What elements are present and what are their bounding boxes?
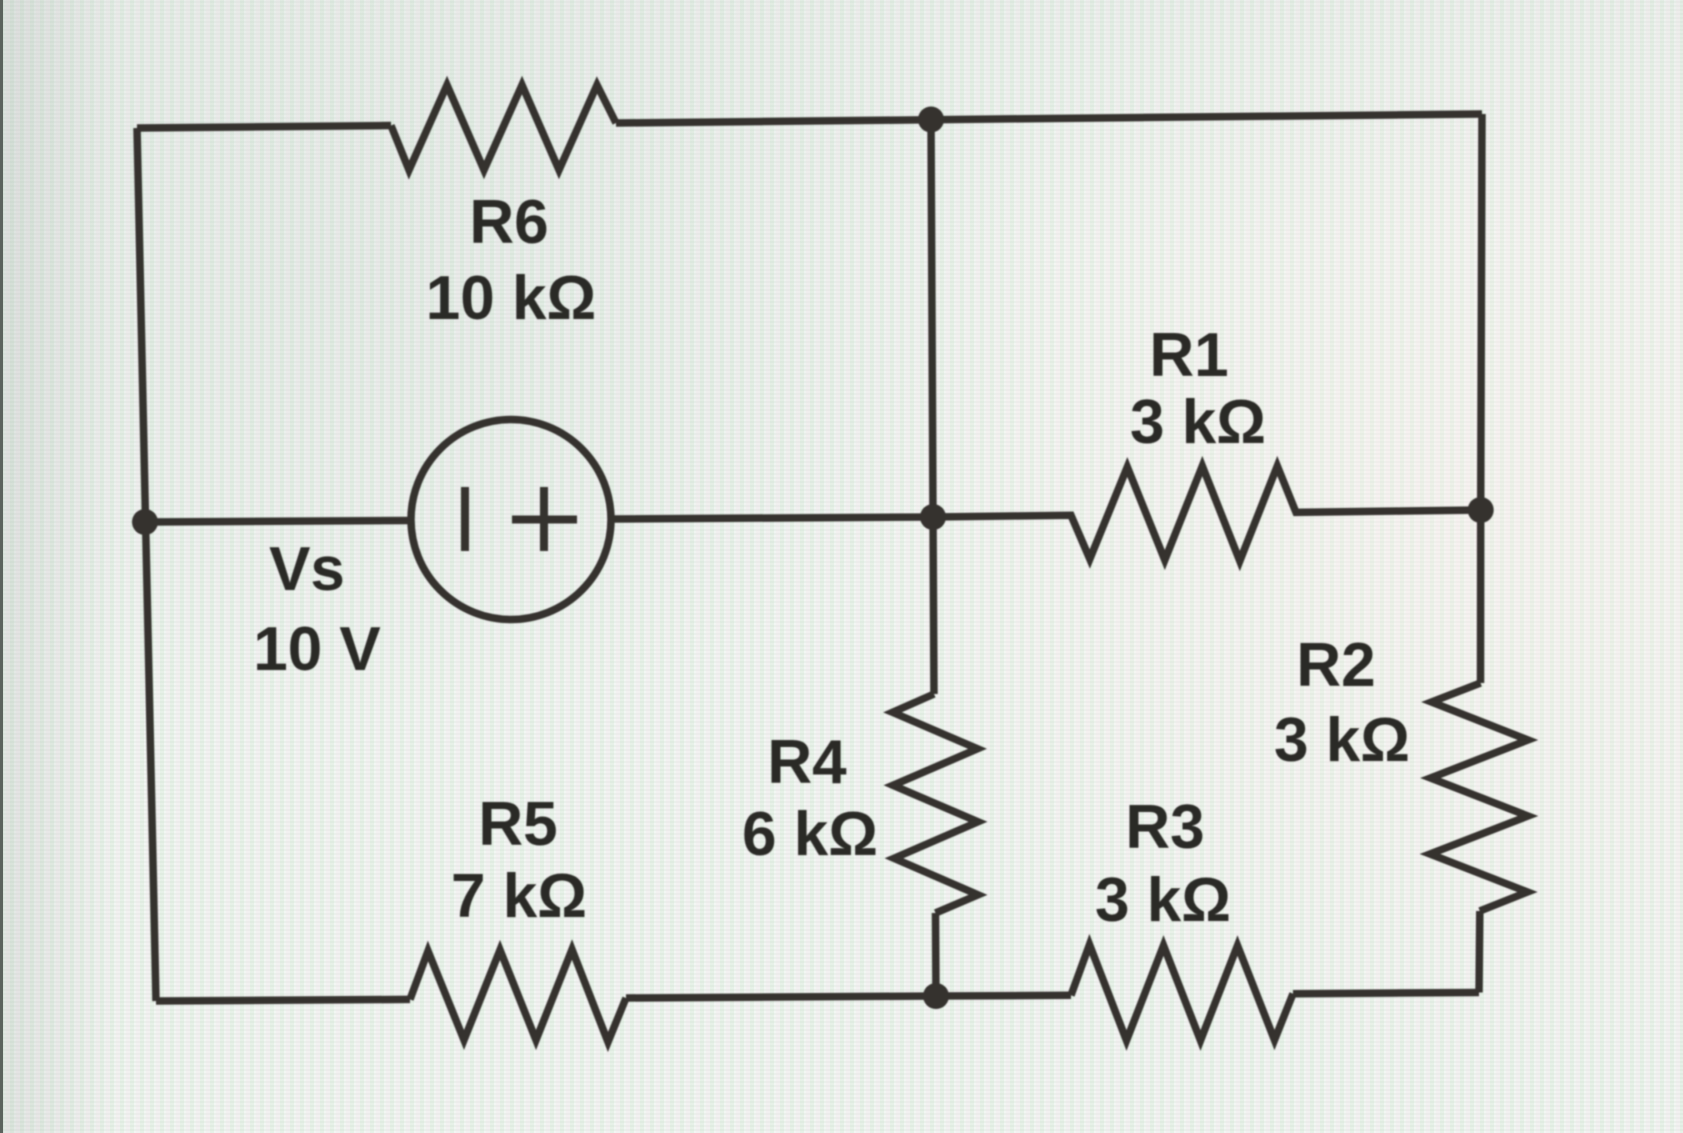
wire middle left segment	[145, 521, 411, 523]
resistor R6	[391, 85, 616, 170]
resistor R3	[1071, 945, 1293, 1041]
Vs minus terminal	[461, 487, 469, 551]
svg-text:7 kΩ: 7 kΩ	[451, 862, 587, 931]
svg-text:10 kΩ: 10 kΩ	[426, 264, 596, 333]
Vs plus terminal	[540, 487, 548, 551]
svg-text:6 kΩ: 6 kΩ	[742, 800, 878, 869]
resistor R1	[933, 466, 1481, 561]
wire left vertical	[137, 128, 156, 1001]
svg-text:Vs: Vs	[269, 535, 345, 604]
wire bottom left segment	[156, 999, 410, 1001]
svg-text:3 kΩ: 3 kΩ	[1274, 706, 1410, 775]
wire top right segment	[616, 114, 1482, 123]
svg-text:3 kΩ: 3 kΩ	[1130, 388, 1266, 457]
svg-text:3 kΩ: 3 kΩ	[1095, 866, 1231, 935]
node top middle	[918, 107, 944, 133]
node bottom middle	[923, 983, 949, 1009]
svg-text:R5: R5	[478, 790, 557, 859]
node right middle	[1468, 497, 1494, 523]
wire middle vertical upper	[931, 120, 934, 695]
wire right vertical lower	[1475, 911, 1483, 993]
svg-text:R1: R1	[1149, 321, 1228, 390]
svg-text:R4: R4	[767, 728, 847, 797]
node left middle	[132, 509, 158, 535]
svg-text:10 V: 10 V	[253, 615, 381, 684]
voltage source Vs circle	[411, 420, 611, 620]
svg-text:R6: R6	[469, 188, 548, 257]
wire top left segment	[137, 126, 391, 129]
svg-text:R3: R3	[1125, 793, 1204, 862]
node center	[920, 504, 946, 530]
wire bottom right segment	[1293, 993, 1479, 994]
wire right vertical upper	[1481, 114, 1483, 683]
svg-text:R2: R2	[1296, 631, 1375, 700]
resistor R5	[410, 950, 626, 1043]
wire bottom middle segment	[626, 995, 1071, 998]
resistor R4	[893, 694, 979, 913]
wire middle vertical lower	[932, 913, 940, 996]
resistor R2	[1430, 683, 1528, 911]
wire middle right of source	[611, 517, 933, 519]
